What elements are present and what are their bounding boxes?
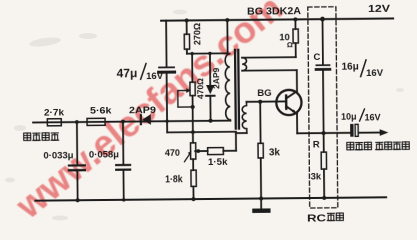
svg-text:3k: 3k <box>269 147 281 158</box>
svg-text:16V: 16V <box>366 68 384 79</box>
svg-text:2AP9: 2AP9 <box>129 105 156 116</box>
svg-text:RC: RC <box>307 212 327 224</box>
svg-text:10μ: 10μ <box>341 112 357 122</box>
svg-text:470: 470 <box>165 148 180 158</box>
svg-text:0·058μ: 0·058μ <box>89 149 119 160</box>
svg-text:12V: 12V <box>368 4 391 15</box>
svg-text:BG: BG <box>257 88 271 99</box>
svg-text:0·033μ: 0·033μ <box>43 150 73 161</box>
svg-text:1·5k: 1·5k <box>208 157 228 168</box>
svg-text:C: C <box>313 52 320 63</box>
svg-text:470Ω: 470Ω <box>195 78 205 99</box>
svg-text:2·7k: 2·7k <box>44 107 65 118</box>
svg-text:Ω: Ω <box>287 40 293 49</box>
svg-text:5·6k: 5·6k <box>90 105 112 116</box>
svg-text:16V: 16V <box>365 112 381 122</box>
svg-text:16V: 16V <box>146 71 164 82</box>
svg-text:3k: 3k <box>311 171 322 182</box>
svg-text:BG 3DK2A: BG 3DK2A <box>247 6 301 18</box>
svg-text:R: R <box>313 139 320 150</box>
svg-text:1·8k: 1·8k <box>165 174 183 185</box>
svg-text:47μ: 47μ <box>117 66 138 80</box>
svg-text:270Ω: 270Ω <box>192 23 202 45</box>
svg-text:16μ: 16μ <box>342 62 359 73</box>
svg-text:2AP9: 2AP9 <box>211 67 221 89</box>
